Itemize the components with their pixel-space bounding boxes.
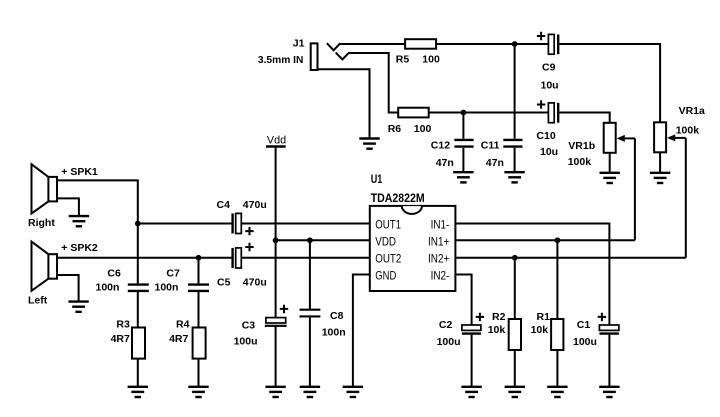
- Vdd supply symbol: [266, 135, 286, 147]
- resistor R6: [398, 108, 429, 118]
- svg-text:U1: U1: [371, 172, 383, 186]
- svg-text:C8: C8: [330, 310, 344, 322]
- ground R3: [128, 387, 148, 397]
- potentiometer VR1b body: [604, 123, 616, 153]
- ground C3: [265, 387, 285, 397]
- wire C6 to R3: [137, 292, 139, 328]
- wire VR1a bottom lead: [659, 152, 661, 172]
- svg-text:IN2-: IN2-: [431, 271, 450, 283]
- svg-text:100u: 100u: [573, 336, 597, 348]
- J1 ring contact: [336, 53, 349, 60]
- ground C1: [599, 387, 619, 397]
- svg-text:100n: 100n: [96, 282, 120, 294]
- wire SPK1 plus terminal to C4 node: [57, 180, 138, 223]
- capacitor C6: [128, 285, 149, 291]
- svg-text:IN2+: IN2+: [428, 253, 450, 265]
- junction R2 on IN2+ wire: [512, 255, 518, 261]
- wire VR1a wiper to IN2+ line: [685, 138, 687, 258]
- svg-text:C12: C12: [431, 139, 450, 151]
- wire Vdd rail down to C3: [275, 147, 277, 318]
- svg-text:100n: 100n: [322, 327, 346, 339]
- svg-text:R3: R3: [116, 318, 130, 330]
- svg-text:Right: Right: [28, 217, 55, 229]
- op-amp IC U1 TDA2822M body: [370, 206, 456, 291]
- svg-text:VR1a: VR1a: [679, 105, 705, 117]
- svg-text:Left: Left: [28, 295, 48, 307]
- svg-text:3.5mm IN: 3.5mm IN: [258, 54, 304, 66]
- ground R2: [505, 387, 525, 397]
- capacitor C2 (polarized): [462, 313, 484, 334]
- ground J1 sleeve: [359, 139, 379, 149]
- potentiometer VR1a body: [654, 122, 666, 152]
- svg-text:VR1b: VR1b: [568, 140, 595, 152]
- resistor R4: [193, 328, 206, 359]
- svg-text:GND: GND: [375, 271, 396, 283]
- wire C3 to ground: [275, 327, 277, 387]
- wire C8 top lead: [309, 240, 311, 309]
- svg-text:47n: 47n: [436, 157, 454, 169]
- wire IN1+ to VR1b wiper: [456, 239, 635, 241]
- wire IN2+ to VR1a wiper: [456, 257, 686, 259]
- ground C12: [453, 172, 473, 182]
- junction C7 on SPK2 wire: [196, 255, 202, 261]
- wire R1 to ground: [556, 350, 558, 386]
- svg-text:Vdd: Vdd: [267, 135, 286, 147]
- svg-text:100u: 100u: [234, 336, 258, 348]
- VR1a wiper arrow: [667, 134, 686, 141]
- wire C7 lead from SPK2 wire: [198, 258, 200, 284]
- svg-text:C4: C4: [217, 199, 231, 211]
- svg-text:100: 100: [414, 123, 432, 135]
- wire R1 top lead: [556, 240, 558, 319]
- svg-text:J1: J1: [293, 37, 305, 49]
- ground SPK2: [68, 302, 88, 312]
- wire J1 sleeve to ground: [318, 69, 370, 138]
- wire VR1b bottom lead: [609, 153, 611, 173]
- ground C11: [504, 172, 524, 182]
- capacitor C12: [454, 140, 473, 147]
- VR1b wiper arrow: [617, 135, 635, 142]
- ground C2: [461, 387, 481, 397]
- junction SPK1/C4: [135, 221, 141, 227]
- svg-text:C7: C7: [166, 268, 180, 280]
- wire R3 to ground: [137, 359, 139, 387]
- wire SPK1 minus terminal to ground: [57, 198, 79, 215]
- connector J1 3.5mm jack body: [311, 43, 318, 70]
- svg-text:C9: C9: [542, 61, 556, 73]
- svg-text:C10: C10: [536, 130, 555, 142]
- svg-text:47n: 47n: [486, 157, 504, 169]
- wire C10 to VR1b top: [559, 113, 610, 123]
- svg-text:IN1+: IN1+: [428, 236, 450, 248]
- ground C8: [300, 387, 320, 397]
- wire GND pin to ground: [353, 275, 370, 387]
- junction R1 on IN1+ wire: [555, 237, 561, 243]
- svg-text:C3: C3: [242, 320, 256, 332]
- wire SPK1 node to C4: [138, 223, 232, 225]
- svg-text:470u: 470u: [243, 199, 267, 211]
- junction node R6/C12: [461, 110, 467, 116]
- svg-text:10u: 10u: [540, 146, 558, 158]
- wire J1 tip to R5: [339, 43, 405, 45]
- capacitor C7: [188, 285, 209, 291]
- svg-text:VDD: VDD: [375, 236, 396, 248]
- svg-text:C5: C5: [217, 277, 231, 289]
- svg-text:100k: 100k: [676, 124, 700, 136]
- wire VR1b wiper to IN1+ line: [634, 138, 636, 240]
- svg-text:C1: C1: [577, 319, 591, 331]
- svg-text:10k: 10k: [488, 324, 506, 336]
- resistor R1: [551, 319, 563, 350]
- svg-text:OUT1: OUT1: [375, 219, 401, 231]
- resistor R5: [405, 39, 436, 49]
- wire C11 lead from R5 node: [514, 44, 516, 172]
- svg-text:IN1-: IN1-: [431, 219, 450, 231]
- capacitor C5 (polarized): [233, 243, 254, 268]
- svg-text:R4: R4: [176, 318, 190, 330]
- ground VR1a: [650, 173, 670, 183]
- wire C4 to OUT1: [242, 223, 370, 225]
- wire R4 to ground: [198, 359, 200, 387]
- capacitor C1 (polarized): [598, 313, 619, 334]
- capacitor C10 (polarized): [537, 100, 558, 122]
- wire SPK2 plus terminal to C5: [57, 257, 232, 259]
- svg-text:10k: 10k: [531, 324, 549, 336]
- wire C7 to R4: [198, 292, 200, 328]
- svg-text:470u: 470u: [243, 277, 267, 289]
- wire C4 node down to C6: [137, 224, 139, 284]
- wire C2 to ground: [471, 335, 473, 387]
- svg-text:C11: C11: [481, 139, 500, 151]
- wire J1 ring to R6: [348, 53, 398, 113]
- speaker SPK1 (Right): [32, 164, 58, 213]
- svg-text:C6: C6: [107, 268, 121, 280]
- svg-text:+ SPK2: + SPK2: [61, 242, 98, 254]
- wire C5 to OUT2: [242, 257, 370, 259]
- wire R2 top lead: [514, 258, 516, 319]
- capacitor C3 (polarized): [265, 305, 288, 326]
- ground VR1b: [600, 173, 620, 183]
- ground R4: [188, 387, 208, 397]
- ground R1: [547, 387, 567, 397]
- resistor R3: [132, 328, 145, 359]
- wire R5 to C9: [436, 43, 548, 45]
- junction node R5/C9/C11: [512, 41, 518, 47]
- wire C9 to VR1a top: [559, 44, 660, 122]
- svg-text:OUT2: OUT2: [375, 253, 401, 265]
- capacitor C8: [300, 310, 321, 317]
- svg-text:100: 100: [422, 54, 440, 66]
- junction Vdd / VDD pin wire: [273, 237, 279, 243]
- svg-text:100k: 100k: [568, 156, 592, 168]
- J1 tip contact: [327, 43, 341, 50]
- wire R6 to C10: [429, 112, 549, 114]
- wire C12 leads: [462, 113, 464, 173]
- ground U1 GND: [343, 387, 363, 397]
- svg-text:10u: 10u: [541, 79, 559, 91]
- svg-text:R6: R6: [388, 123, 402, 135]
- svg-text:TDA2822M: TDA2822M: [371, 191, 425, 205]
- speaker SPK2 (Left): [32, 242, 58, 291]
- wire SPK2 minus terminal to ground: [57, 275, 79, 301]
- ground SPK1: [69, 216, 89, 226]
- svg-text:R1: R1: [537, 311, 551, 323]
- wire IN2- to C2: [456, 275, 472, 326]
- svg-text:C2: C2: [439, 319, 453, 331]
- capacitor C11: [503, 140, 522, 147]
- wire C1 to ground: [608, 335, 610, 387]
- capacitor C9 (polarized): [537, 32, 558, 54]
- capacitor C4 (polarized): [233, 213, 254, 235]
- junction C8 on VDD wire: [307, 237, 313, 243]
- wire IN1- to C1: [456, 224, 610, 326]
- svg-text:100n: 100n: [155, 282, 179, 294]
- svg-text:4R7: 4R7: [111, 333, 130, 345]
- svg-text:+ SPK1: + SPK1: [61, 166, 98, 178]
- svg-text:100u: 100u: [437, 336, 461, 348]
- svg-text:R2: R2: [492, 311, 506, 323]
- wire C8 to ground: [309, 318, 311, 387]
- resistor R2: [509, 319, 521, 350]
- svg-text:R5: R5: [396, 54, 410, 66]
- wire R2 to ground: [514, 350, 516, 386]
- svg-text:4R7: 4R7: [169, 333, 188, 345]
- wire VDD pin: [276, 239, 370, 241]
